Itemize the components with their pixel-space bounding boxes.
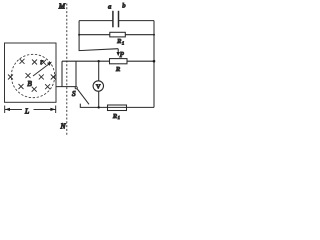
L dimension line — [5, 106, 56, 114]
switch fixed contact stub — [80, 104, 154, 108]
radius arrow r — [33, 62, 52, 76]
capacitor branch wires — [79, 20, 113, 22]
resistor R1 bottom box — [108, 105, 127, 111]
svg-text:M: M — [58, 2, 66, 11]
svg-text:R: R — [115, 66, 120, 73]
field-region box (square frame, side L) — [5, 43, 57, 102]
svg-text:B: B — [27, 80, 32, 88]
svg-text:V: V — [96, 84, 101, 91]
rheostat R box — [110, 59, 128, 64]
capacitor plates a b — [113, 11, 119, 28]
wire voltmeter bottom — [98, 91, 100, 107]
dashed circle (boundary of magnetic field region) — [11, 54, 54, 97]
svg-text:P: P — [119, 52, 124, 59]
switch S blade — [77, 89, 89, 105]
wire: vertical link at x62 — [61, 61, 63, 86]
svg-text:b: b — [122, 3, 126, 10]
resistor R1 top branch wires — [79, 34, 110, 36]
switch S pivot — [75, 87, 77, 89]
junction at right rail R1 — [153, 34, 155, 36]
rheostat right wire — [127, 60, 154, 62]
junction voltmeter top — [98, 60, 100, 62]
svg-text:R: R — [112, 113, 117, 120]
resistor R1 top box — [110, 32, 126, 37]
svg-text:N: N — [60, 122, 67, 131]
svg-text:S: S — [72, 90, 76, 98]
svg-text:1: 1 — [122, 40, 124, 45]
slider arrow P — [117, 49, 119, 54]
voltmeter V — [93, 81, 103, 91]
svg-text:r: r — [40, 58, 43, 66]
svg-text:1: 1 — [118, 115, 120, 120]
junction right rail rheostat — [153, 60, 156, 63]
wire: switch feed vertical — [75, 61, 77, 86]
dashed line MN — [66, 4, 68, 136]
wire voltmeter top — [98, 61, 100, 81]
svg-text:a: a — [108, 3, 111, 10]
right rail — [153, 21, 155, 108]
left rail — [79, 21, 118, 51]
flux crosses B into page — [8, 59, 56, 92]
svg-text:R: R — [116, 38, 121, 45]
wire: rheostat branch horizontal — [62, 60, 110, 62]
wire: box bottom terminal to switch — [56, 86, 76, 88]
junction at left rail R1 — [78, 34, 80, 36]
junction voltmeter bottom — [98, 106, 100, 108]
svg-text:L: L — [24, 107, 29, 116]
